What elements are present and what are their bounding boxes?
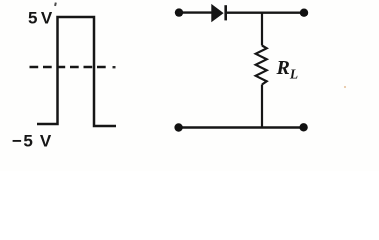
diode D1 [212,5,226,21]
svg-text:RL: RL [276,57,299,82]
terminal node top-right [300,9,308,17]
svg-text:− 5V: − 5V [12,132,52,151]
zero axis dashed line [30,66,107,69]
wire resistor top lead [261,13,263,46]
terminal node bottom-right [299,123,307,131]
wire from diode cathode to junction [226,11,262,13]
wire from junction to top-right terminal [262,11,304,13]
dashed line end dot [113,66,116,68]
terminal node top-left [175,8,183,16]
bottom wire [179,126,304,129]
svg-text:5 V: 5 V [28,9,53,28]
wire resistor bottom lead [261,85,263,128]
wire from top-left terminal to diode anode [179,11,212,13]
square wave input waveform [37,17,116,126]
terminal node bottom-left [174,123,182,131]
resistor RL [256,46,267,85]
